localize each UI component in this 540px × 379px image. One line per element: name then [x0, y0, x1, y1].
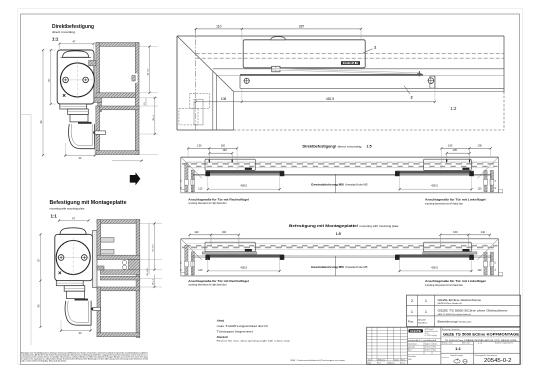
svg-text:130: 130 [197, 143, 202, 147]
svg-text:TS 5000 ECline FRAME INSTALLAT: TS 5000 ECline FRAME INSTALLATION OPP. H… [445, 339, 518, 342]
svg-text:108: 108 [221, 97, 227, 101]
svg-text:direct mounting: direct mounting [52, 31, 76, 34]
svg-text:160: 160 [222, 230, 227, 234]
svg-text:Anschlagmaße für Tür mit Recht: Anschlagmaße für Tür mit Rechtsflügel [188, 279, 249, 283]
svg-text:120: 120 [198, 187, 203, 190]
svg-text:Ers. d.: Ers. d. [400, 361, 405, 364]
svg-text:428.5: 428.5 [240, 265, 247, 269]
svg-text:Gewindebohrung M5/: Gewindebohrung M5/ [311, 182, 344, 186]
svg-text:mounting with mounting plate: mounting with mounting plate [50, 207, 86, 210]
svg-text:120: 120 [477, 187, 482, 190]
svg-text:direct mounting: direct mounting [338, 145, 363, 148]
svg-text:Achtung!: Achtung! [217, 318, 225, 322]
svg-text:21.06.01: 21.06.01 [425, 347, 431, 349]
svg-text:160: 160 [448, 143, 453, 147]
svg-text:1: 1 [411, 310, 413, 314]
svg-text:Hag: Hag [433, 350, 436, 352]
svg-text:Befestigung mit Montageplatte/: Befestigung mit Montageplatte/ [289, 224, 358, 228]
svg-text:Gewindebohrung M5/: Gewindebohrung M5/ [311, 265, 344, 269]
svg-text:GEZE: GEZE [343, 62, 360, 65]
svg-text:38 +1: 38 +1 [153, 114, 155, 120]
svg-text:GEZE ECline Guide rail: GEZE ECline Guide rail [438, 302, 463, 305]
svg-text:1:1: 1:1 [455, 346, 462, 351]
svg-text:Bezeichnung/: Bezeichnung/ [438, 319, 458, 323]
svg-text:Direktbefestigung: Direktbefestigung [52, 24, 94, 30]
svg-text:15: 15 [180, 262, 182, 264]
svg-text:135: 135 [222, 148, 227, 152]
svg-text:15: 15 [495, 180, 497, 182]
svg-text:428.5: 428.5 [240, 184, 247, 188]
svg-text:Anschlagmaße für Tür mit Links: Anschlagmaße für Tür mit Linksflügel [425, 279, 486, 283]
svg-text:15: 15 [495, 262, 497, 264]
svg-text:Anschlagmaße für Tür mit Recht: Anschlagmaße für Tür mit Rechtsflügel [188, 197, 249, 201]
svg-text:287: 287 [299, 25, 305, 29]
svg-text:1:2: 1:2 [450, 106, 457, 111]
svg-text:GEZE TS 5000 ECline ohne Gleit: GEZE TS 5000 ECline ohne Gleitschiene [438, 309, 508, 313]
svg-text:35: 35 [495, 269, 497, 271]
svg-text:120: 120 [198, 269, 203, 272]
svg-text:135: 135 [453, 148, 458, 152]
svg-text:mounting dimensions for right: mounting dimensions for right hand door [188, 202, 227, 205]
svg-text:Attention!: Attention! [217, 336, 229, 339]
svg-text:2: 2 [411, 299, 413, 303]
svg-text:GEZE TS 5000 ECline KOPFMONTAG: GEZE TS 5000 ECline KOPFMONTAGE [443, 332, 520, 336]
svg-text:Name: Name [401, 359, 405, 361]
svg-text:35: 35 [495, 187, 497, 189]
svg-text:mounting dimensions for right: mounting dimensions for right hand door [188, 284, 227, 287]
svg-text:mounting dimensions for left h: mounting dimensions for left hand door [425, 284, 463, 287]
svg-text:142: 142 [194, 230, 199, 234]
svg-text:GWS - Drehausschnittsbericht (: GWS - Drehausschnittsbericht (Prod ausge… [290, 359, 346, 362]
svg-text:1:5: 1:5 [336, 232, 341, 236]
svg-text:1:5: 1:5 [367, 144, 372, 148]
svg-text:threaded hole M5: threaded hole M5 [346, 266, 369, 269]
svg-text:Türstopper begrenzen!: Türstopper begrenzen! [217, 329, 254, 333]
svg-text:452.5: 452.5 [326, 97, 334, 101]
svg-text:06/01: 06/01 [408, 359, 412, 361]
svg-text:1: 1 [425, 299, 427, 303]
svg-text:Identification: Identification [459, 320, 473, 323]
svg-text:76 +0.5: 76 +0.5 [153, 244, 155, 252]
svg-text:Ers. f.: Ers. f. [377, 361, 382, 364]
svg-text:120: 120 [477, 269, 482, 272]
svg-text:mounting dimensions for left h: mounting dimensions for left hand door [425, 202, 463, 205]
svg-text:428.5: 428.5 [431, 265, 438, 269]
svg-text:Urspr.: Urspr. [367, 361, 372, 364]
svg-text:und ist ohne Unterschrift gült: und ist ohne Unterschrift gültig. Massst… [21, 360, 68, 363]
svg-text:GEZE GmbH: GEZE GmbH [425, 329, 434, 331]
svg-text:35: 35 [180, 187, 182, 189]
svg-text:mounting with mounting plate: mounting with mounting plate [360, 225, 400, 228]
svg-text:Anzahl/: Anzahl/ [418, 318, 426, 321]
svg-text:Anschlagmaße für Tür mit Links: Anschlagmaße für Tür mit Linksflügel [425, 197, 486, 201]
svg-text:110: 110 [216, 25, 221, 29]
svg-text:42 +0.5: 42 +0.5 [147, 268, 149, 276]
svg-text:Numbers: Numbers [418, 321, 428, 324]
svg-text:GEZE TS 5000 ECline without Gu: GEZE TS 5000 ECline without Guide rail [438, 313, 471, 316]
svg-text:1: 1 [425, 310, 427, 314]
svg-text:Direktbefestigung/: Direktbefestigung/ [303, 144, 337, 148]
svg-text:160: 160 [221, 143, 226, 147]
svg-text:GEZE ECline-Gleitschiene: GEZE ECline-Gleitschiene [438, 298, 482, 302]
svg-text:Restrict the max. door opening: Restrict the max. door opening angle wit… [217, 340, 291, 343]
svg-text:1:1: 1:1 [52, 36, 59, 41]
svg-text:threaded hole M5: threaded hole M5 [346, 183, 369, 186]
svg-text:max.Türöffnungswinkel durch: max.Türöffnungswinkel durch [217, 324, 268, 328]
svg-text:65 +1: 65 +1 [153, 278, 155, 284]
svg-text:21-29: 21-29 [425, 333, 429, 335]
svg-text:GEZE: GEZE [410, 331, 422, 333]
svg-text:Pos.: Pos. [408, 320, 414, 324]
svg-text:Zeichnungs-Nr. / document no.: Zeichnungs-Nr. / document no. [475, 354, 498, 357]
svg-text:428.5: 428.5 [431, 184, 438, 188]
svg-text:Befestigung mit Montageplatte: Befestigung mit Montageplatte [50, 200, 127, 206]
svg-text:130: 130 [478, 143, 483, 147]
svg-text:44 -0.5: 44 -0.5 [148, 68, 150, 76]
svg-text:160: 160 [453, 230, 458, 234]
svg-text:35: 35 [180, 269, 182, 271]
svg-text:20545-0-2: 20545-0-2 [484, 358, 512, 364]
svg-text:21.06.01: 21.06.01 [425, 350, 431, 352]
svg-text:142: 142 [481, 230, 486, 234]
svg-text:Name: Name [433, 343, 437, 345]
svg-text:15: 15 [180, 180, 182, 182]
svg-text:20545-0-1: 20545-0-1 [387, 362, 395, 364]
svg-text:1:1: 1:1 [51, 213, 58, 218]
